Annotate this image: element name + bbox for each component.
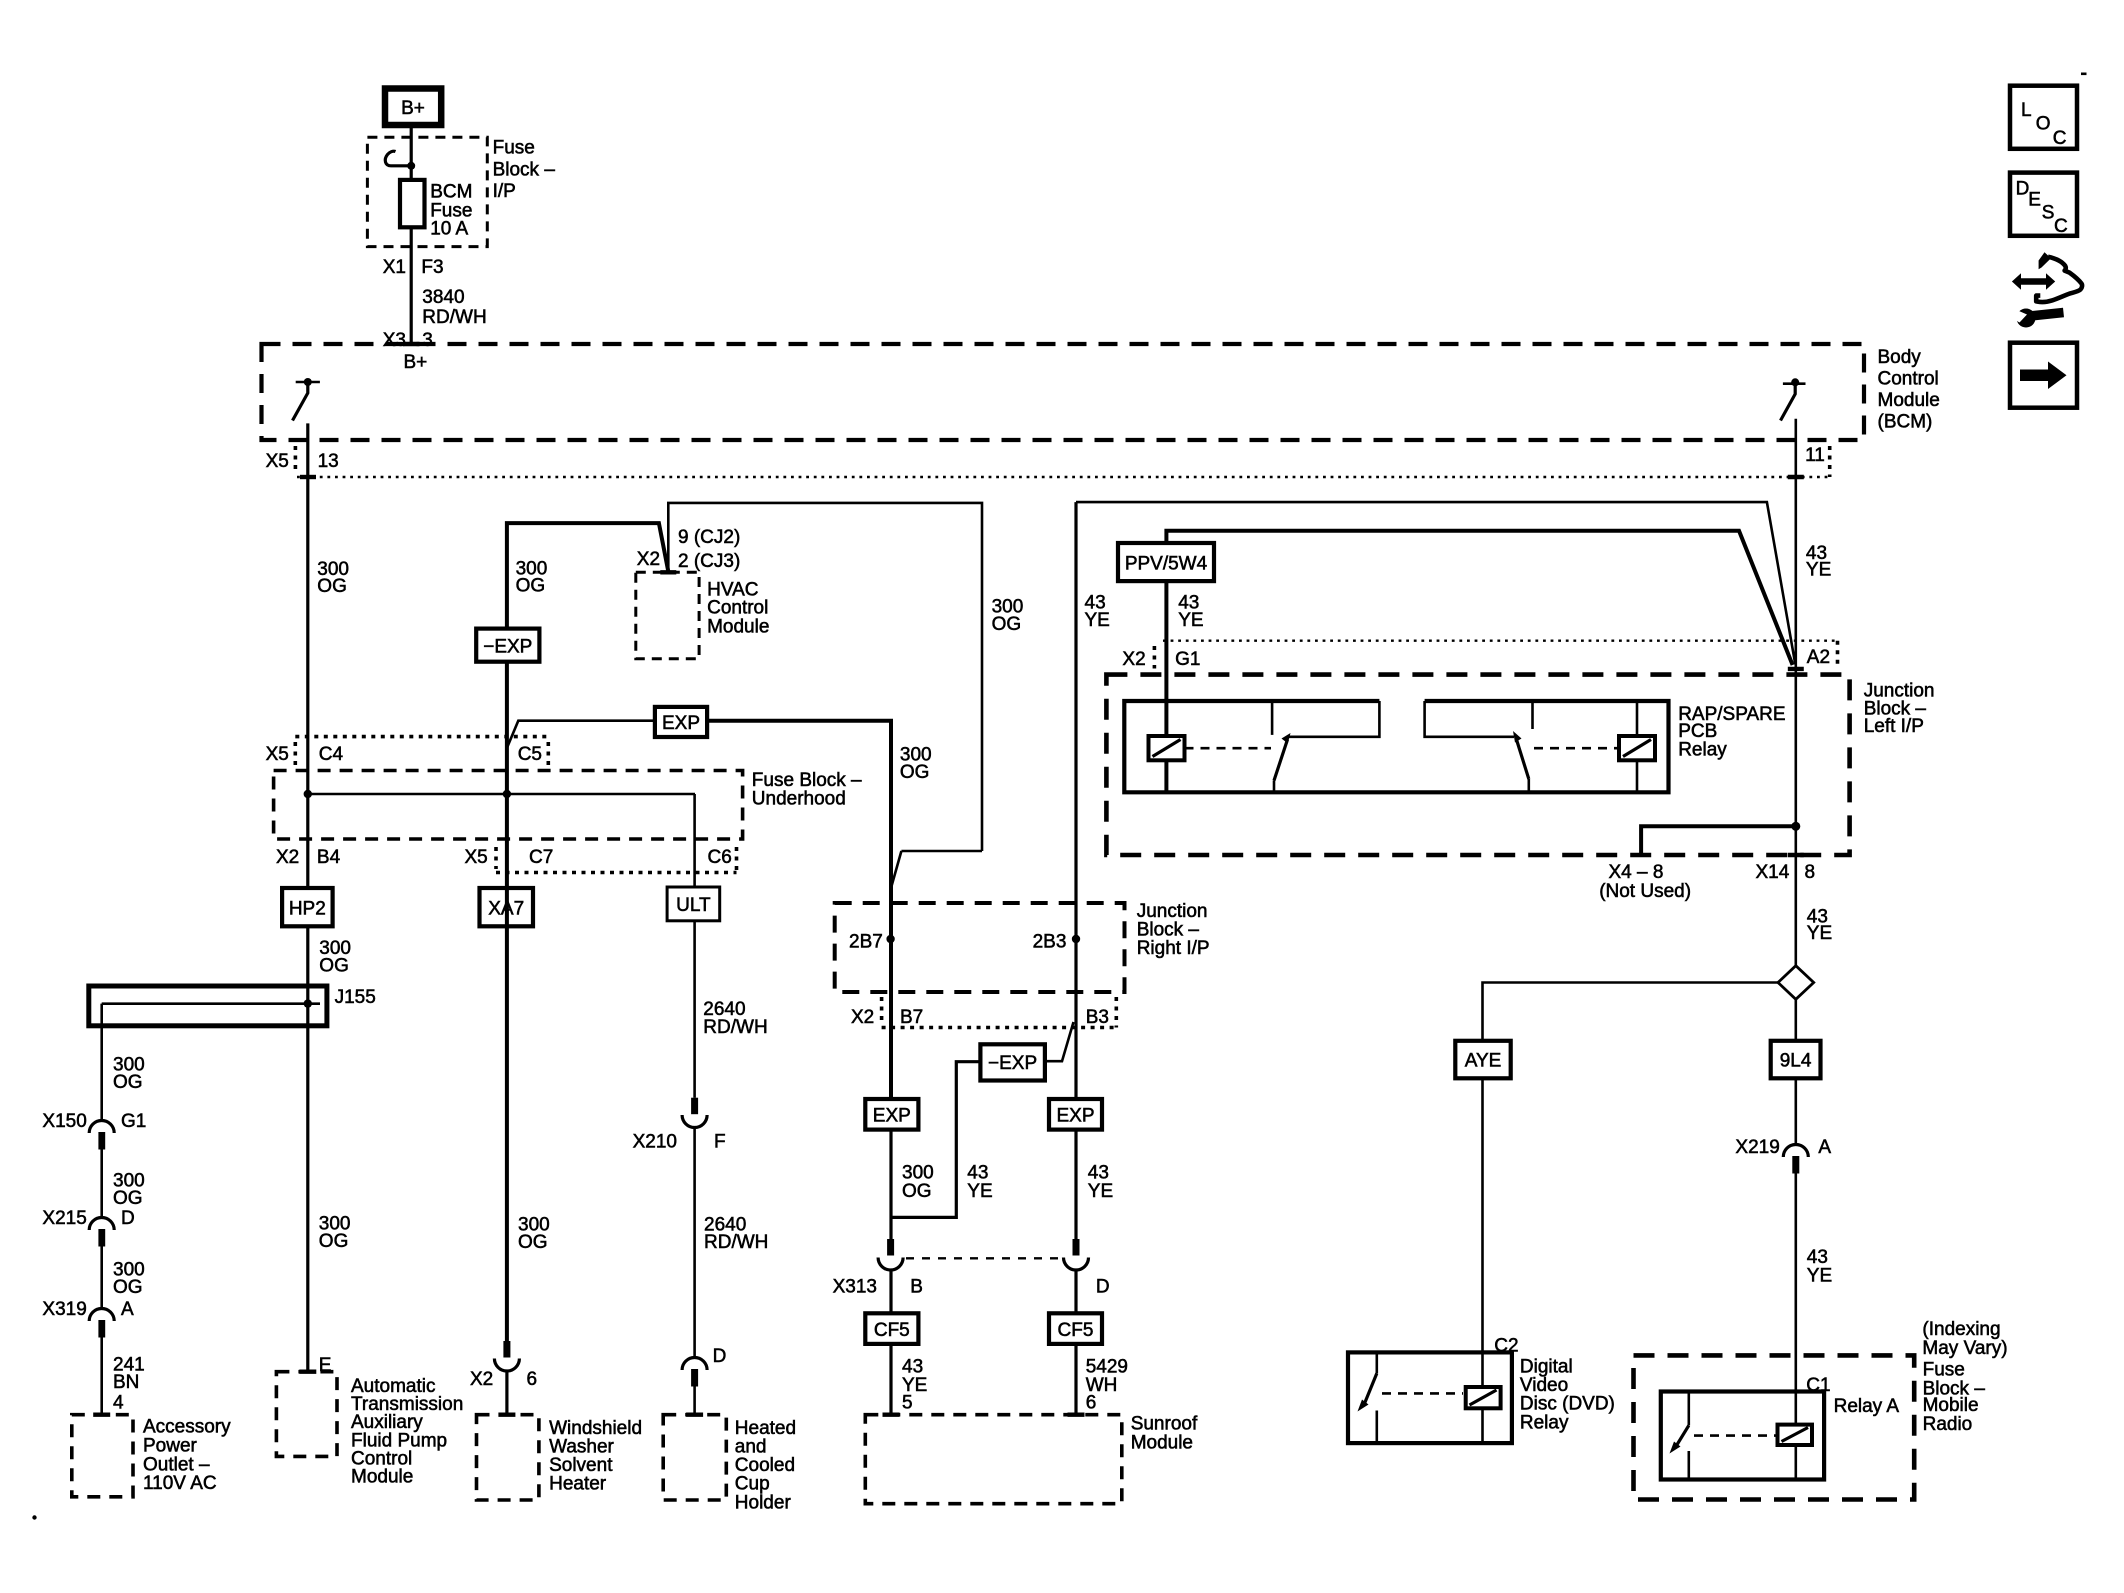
svg-text:EXP: EXP xyxy=(873,1105,911,1126)
fuse CF5 right xyxy=(1049,1313,1102,1344)
svg-text:Heater: Heater xyxy=(549,1474,607,1495)
svg-text:Radio: Radio xyxy=(1923,1414,1973,1435)
svg-text:X2: X2 xyxy=(470,1369,493,1390)
wire relay A coil to bottom xyxy=(1795,1445,1798,1480)
icon arrow box xyxy=(2010,343,2077,408)
svg-text:F3: F3 xyxy=(421,257,443,278)
svg-text:Mobile: Mobile xyxy=(1923,1395,1979,1416)
svg-text:X2: X2 xyxy=(851,1007,874,1028)
fuse HP2 xyxy=(282,888,333,926)
svg-text:Relay: Relay xyxy=(1520,1412,1569,1433)
tick B+ entry xyxy=(403,342,420,346)
heated and cooled cup holder box xyxy=(663,1415,796,1514)
svg-text:Fuse: Fuse xyxy=(493,137,535,158)
wire CF5 to sunroof left xyxy=(889,1344,892,1415)
relay A dashed link xyxy=(1694,1434,1776,1437)
svg-text:CF5: CF5 xyxy=(1058,1320,1094,1341)
svg-text:X150: X150 xyxy=(42,1111,86,1132)
fuse XA7 xyxy=(480,888,534,926)
connector X313 D xyxy=(1064,1239,1110,1298)
stray mark bottom left xyxy=(32,1515,36,1519)
svg-text:B+: B+ xyxy=(401,98,425,119)
svg-text:A: A xyxy=(1818,1137,1831,1158)
Body Control Module (BCM) dashed box xyxy=(262,344,1865,440)
wire 43 YE PPV line thick xyxy=(1166,531,1792,665)
svg-text:YE: YE xyxy=(1807,1265,1832,1286)
svg-text:Holder: Holder xyxy=(735,1492,792,1513)
wire label 300 OG atafp xyxy=(319,1214,351,1253)
connector X2 6 washer xyxy=(470,1341,537,1390)
digital video disc DVD relay box xyxy=(1348,1352,1615,1443)
svg-text:E: E xyxy=(2028,190,2041,211)
svg-text:Relay: Relay xyxy=(1678,739,1727,760)
relay dashed link left xyxy=(1185,747,1272,750)
svg-text:YE: YE xyxy=(967,1181,992,1202)
wire label 43 YE long drop xyxy=(1085,593,1110,632)
connector X210 F xyxy=(633,1098,726,1153)
svg-text:3840: 3840 xyxy=(422,287,464,308)
svg-text:X1: X1 xyxy=(383,257,406,278)
fuse 9L4 xyxy=(1771,1041,1821,1079)
svg-text:I/P: I/P xyxy=(493,181,516,202)
node 2B7 xyxy=(849,932,895,953)
svg-text:OG: OG xyxy=(992,614,1022,635)
svg-text:CF5: CF5 xyxy=(874,1320,910,1341)
fuse block underhood label xyxy=(752,770,862,810)
svg-text:OG: OG xyxy=(317,576,347,597)
svg-text:8: 8 xyxy=(1805,862,1816,883)
DVD relay switch xyxy=(1358,1352,1377,1443)
connector X313 B xyxy=(833,1239,923,1298)
wire X313 B to CF5 xyxy=(889,1270,892,1314)
splice diamond xyxy=(1778,966,1814,1000)
wire 43 YE -EXP to X313 xyxy=(891,1062,980,1218)
svg-text:X2: X2 xyxy=(637,549,660,570)
svg-text:Left I/P: Left I/P xyxy=(1864,716,1924,737)
sunroof module box xyxy=(865,1414,1198,1504)
fuse block I/P dashed box xyxy=(367,137,487,246)
svg-text:Underhood: Underhood xyxy=(752,789,846,810)
wire label 2640 RD/WH lower xyxy=(704,1215,768,1254)
svg-text:Accessory: Accessory xyxy=(143,1417,231,1438)
svg-text:HP2: HP2 xyxy=(289,899,326,920)
pin labels X2 9(CJ2) 2(CJ3) xyxy=(637,527,740,572)
connector X219 A xyxy=(1735,1137,1831,1173)
svg-text:2 (CJ3): 2 (CJ3) xyxy=(678,551,740,572)
svg-text:D: D xyxy=(121,1208,135,1229)
stray mark top right xyxy=(2081,73,2087,76)
icon wrench xyxy=(2010,308,2064,328)
svg-text:YE: YE xyxy=(1806,560,1831,581)
wire label 43 YE below X14 xyxy=(1807,906,1832,944)
svg-text:OG: OG xyxy=(518,1232,548,1253)
svg-text:C: C xyxy=(2053,128,2067,149)
wire label 2640 RD/WH xyxy=(703,999,767,1038)
wire EXP right to 2B7 drop xyxy=(707,721,891,1099)
wire -EXP link to B3 xyxy=(1045,1022,1074,1061)
fuse block mobile radio box xyxy=(1634,1355,1986,1499)
icon LOC xyxy=(2010,86,2077,149)
accessory power outlet box xyxy=(72,1415,231,1497)
wire 300 OG merge into 2B7 drop xyxy=(891,851,982,888)
svg-text:X2: X2 xyxy=(1122,649,1145,670)
svg-text:RD/WH: RD/WH xyxy=(422,307,486,328)
svg-text:RD/WH: RD/WH xyxy=(703,1017,767,1038)
wire 2640 RD/WH ULT branch xyxy=(693,794,696,887)
wire label 43 YE lower xyxy=(1807,1247,1832,1287)
RAP/SPARE PCB relay box xyxy=(1124,701,1785,792)
BCM right driver xyxy=(1781,378,1806,420)
connector X215 D xyxy=(42,1208,134,1247)
windshield washer solvent heater box xyxy=(477,1415,643,1500)
junction block right I/P box xyxy=(835,901,1210,992)
pin label X14 8 xyxy=(1756,855,1816,883)
svg-text:X14: X14 xyxy=(1756,862,1790,883)
svg-text:X319: X319 xyxy=(42,1299,86,1320)
wire 241 BN to outlet xyxy=(100,1338,103,1415)
wire 43 YE PPV to relay coil xyxy=(1164,581,1168,792)
svg-text:BCM: BCM xyxy=(430,182,472,203)
wire label 43 YE 5 xyxy=(902,1357,927,1414)
svg-text:B+: B+ xyxy=(404,352,428,373)
svg-text:C: C xyxy=(2054,216,2068,237)
svg-text:C7: C7 xyxy=(529,847,553,868)
connector strip X2 B7 B3 xyxy=(851,997,1116,1028)
node 2B3 xyxy=(1033,932,1081,953)
junction block left I/P box xyxy=(1106,675,1934,855)
svg-text:Control: Control xyxy=(707,598,768,619)
svg-text:BN: BN xyxy=(113,1372,139,1393)
svg-text:13: 13 xyxy=(318,451,339,472)
svg-text:Module: Module xyxy=(1131,1432,1193,1453)
wire label 300 OG hvac drop xyxy=(992,597,1024,636)
clip terminal symbol xyxy=(385,151,411,166)
svg-text:D: D xyxy=(713,1346,727,1367)
connector X313 line xyxy=(906,1257,1066,1259)
connector strip X5 C4 C5 xyxy=(266,737,549,768)
svg-text:X4 – 8: X4 – 8 xyxy=(1609,862,1664,883)
svg-text:C5: C5 xyxy=(518,744,542,765)
svg-text:B3: B3 xyxy=(1086,1007,1109,1028)
svg-text:(Not Used): (Not Used) xyxy=(1599,881,1691,902)
wire label 43 YE expL xyxy=(967,1162,992,1202)
wire label 300 OG xyxy=(317,559,349,597)
relay A box xyxy=(1661,1392,1824,1480)
wire label 300 OG xa7 xyxy=(516,558,548,596)
wire EXP to X313 D xyxy=(1074,1130,1077,1239)
svg-text:OG: OG xyxy=(319,956,349,977)
svg-text:B4: B4 xyxy=(317,847,341,868)
pin label X4-8 not used xyxy=(1599,862,1691,902)
svg-text:YE: YE xyxy=(1178,610,1203,631)
svg-text:C4: C4 xyxy=(319,744,344,765)
wire 300 OG -EXP to XA7 to washer xyxy=(505,662,509,1341)
svg-text:(BCM): (BCM) xyxy=(1878,411,1933,432)
svg-text:Fuse: Fuse xyxy=(1923,1359,1965,1380)
connector strip X2 B4 / X5 C7 C6 xyxy=(276,847,737,873)
wire 43 YE BCM11 to relay A xyxy=(1788,419,1804,966)
svg-text:X215: X215 xyxy=(42,1208,86,1229)
svg-text:PPV/5W4: PPV/5W4 xyxy=(1125,554,1208,575)
relay coil left xyxy=(1149,736,1185,760)
svg-text:3: 3 xyxy=(422,330,433,351)
fuse ULT xyxy=(667,887,720,921)
svg-text:D: D xyxy=(1096,1277,1110,1298)
svg-text:OG: OG xyxy=(113,1188,143,1209)
svg-text:X3: X3 xyxy=(383,330,406,351)
svg-text:Control: Control xyxy=(1878,368,1939,389)
wire label 300 OG washer xyxy=(518,1215,550,1254)
svg-text:A: A xyxy=(121,1299,134,1320)
icon DESC xyxy=(2010,173,2077,237)
svg-text:2B3: 2B3 xyxy=(1033,932,1067,953)
connector strip X2 G1 A2 xyxy=(1122,641,1837,670)
svg-text:G1: G1 xyxy=(1175,649,1200,670)
svg-text:OG: OG xyxy=(900,762,930,783)
wire diamond to AYE xyxy=(1483,983,1779,1041)
BCM left driver xyxy=(293,378,320,421)
wire into washer heater xyxy=(505,1370,508,1415)
wire EXP to X313 B xyxy=(889,1130,892,1239)
svg-text:J155: J155 xyxy=(335,987,376,1008)
svg-text:Relay A: Relay A xyxy=(1834,1396,1900,1417)
wire AYE to DVD relay xyxy=(1481,1078,1484,1443)
svg-text:L: L xyxy=(2021,100,2032,121)
svg-text:4: 4 xyxy=(113,1393,124,1414)
splice pack J155 xyxy=(89,986,376,1026)
svg-text:Module: Module xyxy=(1878,390,1940,411)
icon car double arrow xyxy=(2012,252,2082,302)
junction dot left xyxy=(304,790,312,798)
svg-text:ULT: ULT xyxy=(676,895,711,916)
wire into cup holder xyxy=(693,1387,696,1415)
wire 300 OG top run to HVAC xyxy=(507,503,982,851)
svg-text:EXP: EXP xyxy=(1056,1105,1094,1126)
wire 9L4 to X219 xyxy=(1795,1078,1798,1144)
wire label 3840 RD/WH xyxy=(422,287,486,328)
indexing may vary label xyxy=(1922,1319,2007,1359)
svg-text:EXP: EXP xyxy=(662,713,700,734)
svg-text:Block –: Block – xyxy=(493,159,556,180)
relay switch left xyxy=(1272,701,1379,792)
DVD relay coil xyxy=(1466,1387,1501,1408)
battery terminal B+ xyxy=(385,89,441,126)
wire X4-8 stub xyxy=(1641,822,1800,855)
svg-text:O: O xyxy=(2036,114,2051,135)
wire HP2 to J155 xyxy=(306,926,309,1371)
svg-text:OG: OG xyxy=(319,1231,349,1252)
wire EXP left to C5 xyxy=(507,721,655,748)
junction dot clip xyxy=(407,162,415,170)
svg-text:B: B xyxy=(910,1277,923,1298)
wire 3840 RD/WH fuse to BCM xyxy=(410,227,413,344)
relay switch right xyxy=(1425,701,1533,792)
svg-text:YE: YE xyxy=(1807,923,1832,944)
svg-text:OG: OG xyxy=(113,1072,143,1093)
svg-text:Right I/P: Right I/P xyxy=(1137,938,1210,959)
expansion EXP box right xyxy=(1049,1099,1102,1130)
wire X313 D to CF5 xyxy=(1074,1270,1077,1314)
wire X210 to cup holder xyxy=(693,1127,696,1358)
svg-text:B7: B7 xyxy=(900,1007,923,1028)
svg-text:Power: Power xyxy=(143,1435,198,1456)
svg-text:Body: Body xyxy=(1878,347,1922,368)
svg-text:Outlet –: Outlet – xyxy=(143,1454,210,1475)
wire diamond to 9L4 xyxy=(1795,999,1798,1041)
HVAC control module box xyxy=(636,572,770,658)
wire label 300 OG 2B7 xyxy=(900,745,932,784)
wire CF5 to sunroof right xyxy=(1074,1344,1077,1415)
svg-text:2B7: 2B7 xyxy=(849,932,883,953)
fuse BCM 10A xyxy=(400,180,472,240)
svg-text:−EXP: −EXP xyxy=(988,1053,1037,1074)
svg-text:OG: OG xyxy=(902,1181,932,1202)
svg-text:Module: Module xyxy=(707,617,769,638)
junction dot mid xyxy=(503,790,511,798)
svg-text:A2: A2 xyxy=(1807,647,1830,668)
wire 43 YE 2B3 drop xyxy=(1074,502,1077,1099)
BCM connector strip X5 13 / 11 xyxy=(266,445,1830,477)
svg-text:C6: C6 xyxy=(708,847,732,868)
svg-text:YE: YE xyxy=(1088,1181,1113,1202)
relay dashed link right xyxy=(1534,747,1619,750)
connector X319 A xyxy=(42,1299,134,1338)
svg-text:XA7: XA7 xyxy=(488,899,524,920)
svg-text:May Vary): May Vary) xyxy=(1922,1338,2007,1359)
wire label 43 YE expR xyxy=(1088,1162,1113,1202)
relay A switch xyxy=(1670,1392,1689,1480)
svg-text:11: 11 xyxy=(1805,445,1825,466)
wire label 43 YE right pair xyxy=(1178,593,1203,632)
svg-text:F: F xyxy=(714,1132,726,1153)
svg-text:D: D xyxy=(2016,179,2030,200)
BCM label xyxy=(1878,347,1940,433)
wire label 300 OG xyxy=(319,938,351,977)
wire label 5429 WH 6 xyxy=(1086,1357,1128,1414)
svg-text:S: S xyxy=(2042,203,2055,224)
wire X219 to relay A xyxy=(1795,1174,1798,1425)
svg-text:X5: X5 xyxy=(266,744,289,765)
wire bus inside underhood xyxy=(308,793,695,796)
svg-text:−EXP: −EXP xyxy=(483,637,532,658)
svg-text:6: 6 xyxy=(527,1369,538,1390)
svg-text:G1: G1 xyxy=(121,1111,146,1132)
DVD relay dashed link xyxy=(1382,1392,1463,1395)
relay A coil xyxy=(1778,1425,1813,1445)
svg-text:RD/WH: RD/WH xyxy=(704,1232,768,1253)
pin labels X1 F3 xyxy=(383,257,444,278)
fuse PPV/5W4 xyxy=(1118,543,1214,581)
svg-text:X5: X5 xyxy=(465,847,488,868)
expansion -EXP box mid xyxy=(980,1044,1045,1080)
svg-text:5: 5 xyxy=(902,1393,913,1414)
fuse AYE xyxy=(1455,1041,1510,1079)
svg-text:OG: OG xyxy=(113,1277,143,1298)
wire label 300 OG expL xyxy=(902,1162,934,1202)
expansion -EXP box xyxy=(476,629,539,662)
relay coil right xyxy=(1619,701,1655,792)
svg-text:X210: X210 xyxy=(633,1132,677,1153)
svg-text:110V AC: 110V AC xyxy=(143,1473,217,1494)
automatic transmission auxiliary fluid pump control module box xyxy=(276,1372,463,1488)
svg-text:X5: X5 xyxy=(266,451,289,472)
svg-text:AYE: AYE xyxy=(1465,1051,1502,1072)
fuse CF5 left xyxy=(865,1313,918,1344)
wire 300 OG X150 to X215 xyxy=(100,1150,103,1218)
svg-text:X219: X219 xyxy=(1735,1137,1779,1158)
wire ULT to X210 xyxy=(693,921,696,1098)
pin labels X3 3 xyxy=(383,330,433,351)
expansion EXP box left xyxy=(865,1099,918,1130)
connector D cup holder xyxy=(682,1346,726,1387)
svg-text:9L4: 9L4 xyxy=(1780,1051,1812,1072)
svg-text:X2: X2 xyxy=(276,847,299,868)
svg-text:YE: YE xyxy=(1085,610,1110,631)
expansion EXP box top xyxy=(655,707,707,737)
wire 300 OG X215 to X319 xyxy=(100,1247,103,1309)
svg-text:10 A: 10 A xyxy=(430,219,468,240)
wire label 43 YE upper xyxy=(1806,543,1831,581)
svg-text:OG: OG xyxy=(516,576,546,597)
wire B+ to fuse xyxy=(410,128,413,180)
svg-text:X313: X313 xyxy=(833,1277,877,1298)
fuse block underhood dashed box xyxy=(274,771,743,840)
svg-text:9 (CJ2): 9 (CJ2) xyxy=(678,527,740,548)
fuse block I/P label xyxy=(493,137,556,202)
svg-text:Module: Module xyxy=(351,1467,413,1488)
wire 300 OG BCM13 to HP2 xyxy=(300,423,316,888)
wire 300 OG J155 to X150 xyxy=(100,1004,103,1121)
svg-text:6: 6 xyxy=(1086,1393,1097,1414)
wire 43 YE A2 line thin xyxy=(1076,502,1795,664)
connector X150 G1 xyxy=(42,1111,146,1150)
